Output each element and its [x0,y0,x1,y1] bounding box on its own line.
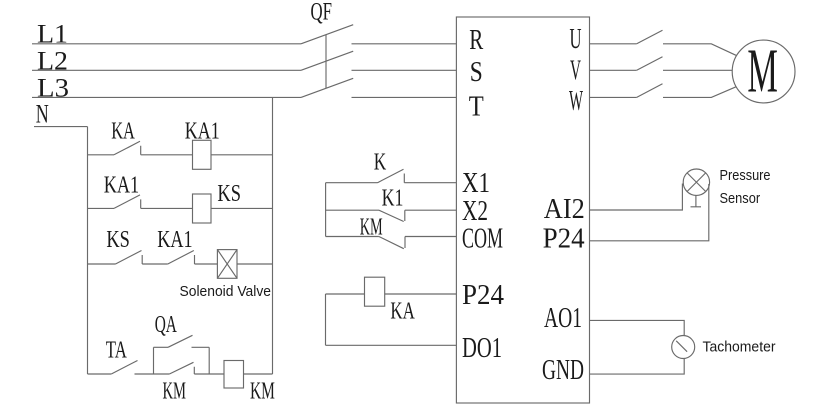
wire L1 phase line [32,43,301,45]
svg-text:V: V [570,55,581,87]
svg-text:R: R [469,24,483,56]
wire row2 middle [141,207,193,209]
pin COM [462,222,503,254]
wire row4 to coil [194,373,224,375]
pin S [470,56,483,88]
breaker QF pole 3 blade [301,78,353,97]
pin P24 left [462,279,504,311]
svg-text:L1: L1 [37,19,68,48]
label L3 [37,74,69,103]
svg-text:K: K [374,150,387,176]
contact KA1 row3 [168,251,195,265]
wire X2 left [326,209,379,211]
pin X1 [462,167,490,199]
wire U output [590,43,637,45]
svg-text:AI2: AI2 [544,193,585,225]
label KA row1 [111,119,135,145]
label KS row3 [106,227,129,253]
wire U to motor [663,44,736,56]
wire QA branch top right [192,346,210,348]
wire row1 left [88,154,115,156]
svg-text:Solenoid Valve: Solenoid Valve [180,284,272,300]
pin V [570,55,581,87]
svg-text:KM: KM [163,378,187,404]
svg-text:N: N [36,99,49,128]
wire N neutral line [34,126,88,128]
svg-text:Sensor: Sensor [720,191,761,207]
wire QA branch right riser [208,347,210,374]
svg-text:KM: KM [360,214,383,240]
svg-text:Tachometer: Tachometer [703,339,776,355]
svg-text:QA: QA [155,312,178,338]
contact KM row4 [169,362,194,374]
wire row3 middle 1 [142,263,168,265]
wire L2 phase line [32,69,301,71]
svg-text:W: W [569,85,583,117]
motor M circle [732,38,795,106]
svg-text:KA: KA [390,299,415,325]
wire row1 right [211,154,273,156]
contact QA [168,335,193,347]
wire P24 right [590,184,709,241]
pin GND [542,354,584,386]
label KM left [163,378,187,404]
wire GND [590,359,685,375]
inverter box U1 [456,17,589,403]
wire KA coil bus [325,294,327,345]
contact KA [114,141,141,155]
svg-text:AO1: AO1 [544,302,582,334]
contact K [378,169,405,183]
label K [374,150,387,176]
contact KS [116,251,143,265]
label L2 [37,46,68,75]
coil KS [193,194,212,223]
wire AO1 [590,320,685,335]
wire QA branch left riser [153,347,155,374]
wire L2 to terminal S [352,69,457,71]
svg-text:KA1: KA1 [104,173,140,199]
pin X2 [462,195,488,227]
tachometer symbol [672,336,695,359]
breaker QF pole 2 blade [301,51,353,70]
svg-text:TA: TA [106,337,127,363]
wire COM to box [405,236,456,238]
label N [36,99,49,128]
wire row3 left [88,263,116,265]
coil KA1 [193,140,212,169]
svg-text:KS: KS [106,227,129,253]
wire DO1 row [326,344,457,346]
wire QA branch top left [154,346,169,348]
wire AI2 [590,184,683,211]
pin T [469,90,484,122]
svg-text:QF: QF [311,0,333,26]
wire row2 right [211,207,273,209]
wire W output [590,96,637,98]
coil KM [224,361,244,389]
label KA1 row2 [104,173,140,199]
label Solenoid Valve [180,284,272,300]
svg-text:S: S [470,56,483,88]
svg-text:KM: KM [250,378,275,404]
svg-text:Pressure: Pressure [720,168,771,184]
solenoid valve symbol [217,250,237,279]
pin AI2 [544,193,585,225]
label KA coil [390,299,415,325]
contact KM input [379,237,405,249]
svg-text:P24: P24 [462,279,504,311]
svg-text:KS: KS [217,181,241,207]
svg-text:KA1: KA1 [157,227,192,253]
svg-text:K1: K1 [382,186,404,212]
breaker QF pole 1 blade [301,25,353,44]
label KA1 row1 [185,119,220,145]
wire row3 right [237,263,273,265]
label L1 [37,19,68,48]
label QF [311,0,333,26]
wire row4 left [88,373,112,375]
pin U [570,23,582,55]
label KA1 row3 [157,227,192,253]
label Sensor [720,191,761,207]
wire V to motor [663,69,732,71]
wire ladder left bus from N [87,127,89,374]
svg-text:U: U [570,23,582,55]
pressure sensor symbol [683,169,709,207]
svg-text:M: M [747,38,778,106]
label KM input [360,214,383,240]
svg-text:L2: L2 [37,46,68,75]
svg-text:GND: GND [542,354,584,386]
svg-text:KA: KA [111,119,135,145]
wire row4 middle [135,373,170,375]
wire L1 to terminal R [352,43,457,45]
label K1 [382,186,404,212]
wire row3 middle 2 [195,263,218,265]
label KS row2 [217,181,241,207]
wire X1 left [326,182,378,184]
pin W [569,85,583,117]
wire row4 right [244,373,273,375]
wire X2 to box [405,209,457,211]
wire ladder right bus from L3 [272,97,274,374]
label TA [106,337,127,363]
pin DO1 [462,332,502,364]
breaker QF tie bar [325,35,327,89]
contact KA1 [114,195,141,209]
wire row2 left [88,207,115,209]
wire X1 to box [404,182,456,184]
wire W to motor [663,87,736,98]
svg-text:COM: COM [462,222,503,254]
label QA [155,312,178,338]
label Tachometer [703,339,776,355]
wire row1 middle [141,154,193,156]
svg-text:T: T [469,90,484,122]
contact KM pole W [637,84,663,98]
pin R [469,24,483,56]
wire input common bus [325,183,327,237]
svg-text:P24: P24 [543,222,585,254]
label Pressure [720,168,771,184]
pin P24 right [543,222,585,254]
contact K1 [379,210,405,221]
wire L3 to terminal T [352,96,457,98]
contact KM pole U [637,30,663,44]
svg-text:DO1: DO1 [462,332,502,364]
coil KA [365,277,385,306]
svg-text:L3: L3 [37,74,69,103]
pin AO1 [544,302,582,334]
wire V output [590,69,637,71]
contact TA [111,361,137,375]
wire L3 phase line [32,96,301,98]
wire P24 row [326,293,457,295]
svg-text:KA1: KA1 [185,119,220,145]
contact KM pole V [637,57,663,71]
label KM right [250,378,275,404]
wire COM left [326,236,379,238]
